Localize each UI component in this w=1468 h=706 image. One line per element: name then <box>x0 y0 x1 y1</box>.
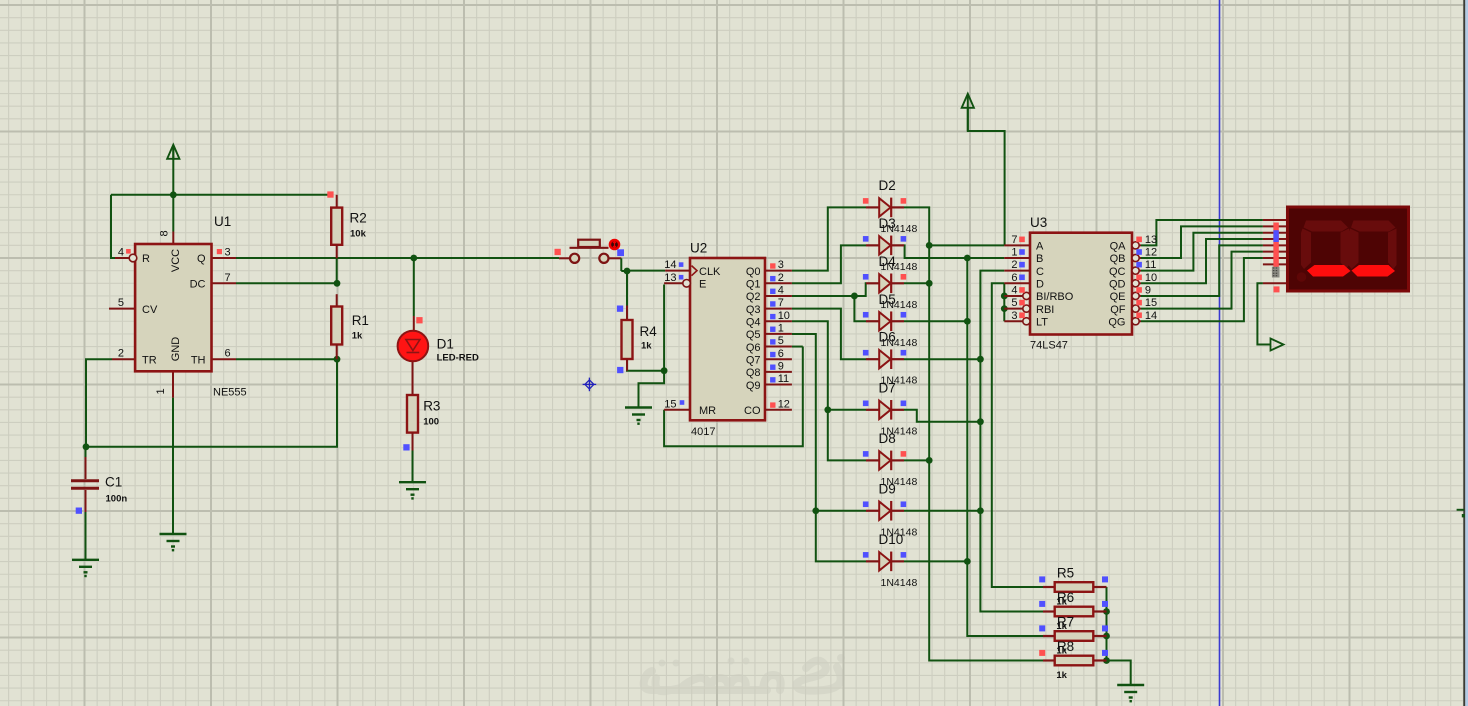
resistor R7 <box>1043 635 1055 637</box>
node TR-C1 junction <box>83 443 90 450</box>
wire pin8 drop <box>172 195 174 232</box>
svg-text:Q2: Q2 <box>746 291 761 303</box>
svg-text:14: 14 <box>664 259 676 271</box>
svg-text:12: 12 <box>778 398 790 410</box>
ground R3 <box>399 482 426 495</box>
svg-text:13: 13 <box>1145 234 1157 246</box>
diode D7 1N4148 <box>866 400 904 420</box>
svg-text:4: 4 <box>778 285 784 297</box>
node DC-R1R2 junction <box>334 280 341 287</box>
node Q4-D7 junction <box>824 406 831 413</box>
wire fragment right edge <box>1457 509 1465 511</box>
wire Q4 to D7 D8 bus <box>792 321 866 460</box>
node BI RBI taps <box>1001 293 1008 300</box>
svg-text:NE555: NE555 <box>213 387 247 399</box>
wire U3 QG to display <box>1141 258 1263 321</box>
node TH-R1 junction <box>334 356 341 363</box>
svg-text:QE: QE <box>1110 291 1126 303</box>
svg-text:R4: R4 <box>640 324 658 339</box>
diode D3 1N4148 <box>866 236 904 256</box>
svg-text:2: 2 <box>778 272 784 284</box>
pin stub U1 pin3 Q <box>212 257 237 259</box>
svg-text:Q7: Q7 <box>746 354 761 366</box>
svg-text:U3: U3 <box>1030 215 1047 230</box>
svg-text:10k: 10k <box>350 229 367 240</box>
diode D2 1N4148 <box>866 198 904 218</box>
svg-text:4: 4 <box>118 247 124 259</box>
svg-text:6: 6 <box>778 348 784 360</box>
svg-text:C1: C1 <box>105 475 122 490</box>
svg-text:R: R <box>142 253 150 265</box>
ground R8 <box>1117 685 1144 698</box>
svg-text:13: 13 <box>664 272 676 284</box>
wire E pin drop <box>663 285 665 371</box>
svg-text:QB: QB <box>1110 253 1126 265</box>
display common pin stub <box>1263 282 1289 284</box>
svg-text:QA: QA <box>1110 241 1127 253</box>
wire Q2 to D4 <box>792 283 866 296</box>
svg-text:CO: CO <box>744 405 761 417</box>
svg-text:DC: DC <box>190 279 206 291</box>
svg-text:C: C <box>1036 266 1044 278</box>
wire D8 cathode link <box>904 459 929 461</box>
svg-text:R5: R5 <box>1057 566 1074 581</box>
node R4-E junction <box>661 367 668 374</box>
diode D4 1N4148 <box>866 274 904 294</box>
wire D10 cathode link <box>904 560 967 562</box>
wire U3 QA to display <box>1141 220 1263 245</box>
svg-text:Q0: Q0 <box>746 266 761 278</box>
svg-text:1k: 1k <box>1056 670 1067 681</box>
U1 pin4 bubble <box>129 254 137 262</box>
svg-text:D3: D3 <box>879 216 896 231</box>
ic U2 4017 body <box>690 258 765 420</box>
svg-text:D8: D8 <box>879 431 896 446</box>
svg-text:U1: U1 <box>214 214 231 229</box>
svg-text:1k: 1k <box>641 341 652 352</box>
wire R5-R8 common vertical <box>1107 587 1131 685</box>
svg-text:3: 3 <box>778 259 784 271</box>
svg-text:Q9: Q9 <box>746 380 761 392</box>
watermark <box>644 661 841 692</box>
diode D6 1N4148 <box>866 349 904 369</box>
svg-text:7: 7 <box>778 297 784 309</box>
node R6 R7 R8 taps <box>1103 608 1110 615</box>
svg-text:D4: D4 <box>879 254 897 269</box>
resistor R1 <box>336 294 338 306</box>
diode D10 1N4148 <box>866 552 904 572</box>
svg-text:6: 6 <box>225 348 231 360</box>
wire VCC2 to U3 A <box>968 108 1005 245</box>
svg-text:Q4: Q4 <box>746 317 761 329</box>
svg-text:D6: D6 <box>879 330 896 345</box>
svg-text:Q3: Q3 <box>746 304 761 316</box>
wire reset drop to pin4 <box>111 195 116 258</box>
svg-text:1N4148: 1N4148 <box>881 577 918 589</box>
wire U1 pin1 to ground <box>172 371 174 398</box>
svg-text:R7: R7 <box>1057 615 1074 630</box>
svg-text:B: B <box>1036 253 1043 265</box>
U2 Q output stubs <box>765 270 792 272</box>
wire VCC rail U1 top <box>111 194 332 196</box>
pin stub U1 pin2 TR <box>112 358 135 360</box>
svg-text:3: 3 <box>225 247 231 259</box>
svg-text:GND: GND <box>170 337 182 362</box>
wire Q6 stub link <box>792 346 803 348</box>
pin stub U1 pin4 <box>115 257 129 259</box>
resistor R5 <box>1043 586 1055 588</box>
svg-text:7: 7 <box>1011 234 1017 246</box>
wire R3 to ground <box>412 451 414 483</box>
svg-text:D1: D1 <box>437 337 454 352</box>
node Q-D1 junction <box>410 255 417 262</box>
wire junction to ground jog <box>639 371 665 407</box>
wire TH to R1 bottom <box>236 358 337 360</box>
svg-text:MR: MR <box>699 405 716 417</box>
svg-text:E: E <box>699 279 706 291</box>
ground R4 <box>625 408 652 421</box>
svg-text:D5: D5 <box>879 292 896 307</box>
svg-text:8: 8 <box>159 230 171 236</box>
svg-text:TR: TR <box>142 354 157 366</box>
wire Q1 to D3 <box>792 245 866 283</box>
display digit 1 segments <box>1304 221 1349 232</box>
svg-text:14: 14 <box>1145 310 1157 322</box>
svg-text:100n: 100n <box>106 494 128 505</box>
svg-text:1: 1 <box>778 322 784 334</box>
svg-text:9: 9 <box>1145 284 1151 296</box>
svg-text:1: 1 <box>1011 247 1017 259</box>
node bus C taps <box>977 356 984 363</box>
diode D9 1N4148 <box>866 501 904 521</box>
ground C1 <box>72 560 99 573</box>
svg-text:Q1: Q1 <box>746 279 761 291</box>
pin stub U1 pin5 CV <box>109 308 135 310</box>
wire C1 bottom to ground <box>85 512 87 560</box>
svg-text:RBI: RBI <box>1036 304 1054 316</box>
wire D5 cathode link <box>904 320 967 322</box>
pin stub U1 pin7 DC <box>212 282 237 284</box>
svg-text:11: 11 <box>778 373 789 385</box>
resistor R2 <box>336 195 338 208</box>
svg-text:15: 15 <box>1145 297 1157 309</box>
svg-text:9: 9 <box>778 360 784 372</box>
svg-text:D9: D9 <box>879 481 896 496</box>
svg-text:R8: R8 <box>1057 639 1074 654</box>
wire U3 QE to display <box>1141 245 1263 296</box>
origin crosshair marker <box>583 378 597 392</box>
7-segment display <box>1288 207 1409 291</box>
wire D9 cathode link <box>904 510 980 512</box>
wire U3 QD to display <box>1141 239 1263 283</box>
svg-text:R6: R6 <box>1057 590 1074 605</box>
wire D3 cathode jog to bus B <box>904 245 1004 258</box>
svg-text:QG: QG <box>1108 316 1125 328</box>
resistor R4 <box>626 306 628 321</box>
U2 E pin stub and bubble <box>664 282 683 284</box>
svg-text:LED-RED: LED-RED <box>437 353 479 364</box>
wire D9 anode link <box>816 510 866 512</box>
wire Q output net <box>236 257 559 259</box>
wire D4 cathode link <box>904 282 929 284</box>
svg-text:LT: LT <box>1036 316 1048 328</box>
svg-text:D10: D10 <box>879 532 904 547</box>
wire bus B vertical <box>967 258 1043 636</box>
resistor R6 <box>1043 610 1055 612</box>
wire D7 anode link <box>828 409 866 411</box>
U2 CO stub <box>765 409 792 411</box>
node button-R4-CLK junction <box>624 268 631 275</box>
display selection markers <box>1273 223 1278 268</box>
power symbol VCC2 <box>967 95 969 131</box>
wire bus D vertical <box>992 283 1043 587</box>
svg-text:5: 5 <box>778 335 784 347</box>
wire D7 cathode jog <box>904 410 980 422</box>
wire bus C vertical <box>980 271 1043 612</box>
svg-text:2: 2 <box>118 348 124 360</box>
edit-window boundary line <box>1219 0 1221 706</box>
node bus A taps <box>926 242 933 249</box>
svg-text:QF: QF <box>1110 304 1126 316</box>
svg-text:3: 3 <box>1011 310 1017 322</box>
wire power arrow 1 stem <box>172 147 174 195</box>
ic U3 74LS47 body <box>1030 233 1132 335</box>
wire bus A vertical <box>904 207 1043 660</box>
svg-text:R3: R3 <box>423 399 440 414</box>
wire R2 bottom link <box>336 258 338 283</box>
wire U3 QB to display <box>1141 226 1263 258</box>
node bus B top <box>964 255 971 262</box>
svg-text:A: A <box>1036 241 1044 253</box>
display pin stubs <box>1263 219 1289 221</box>
svg-text:5: 5 <box>1011 297 1017 309</box>
U3 left pin stubs <box>1004 244 1030 246</box>
wire Q5 to D9 D10 bus <box>792 334 866 561</box>
node Q5-D9 junction <box>812 507 819 514</box>
wire U3 QC to display <box>1141 233 1263 271</box>
svg-text:CV: CV <box>142 304 158 316</box>
svg-text:11: 11 <box>1145 259 1156 271</box>
svg-text:12: 12 <box>1145 247 1157 259</box>
svg-text:Q6: Q6 <box>746 342 761 354</box>
wire junction to U2 CLK <box>627 270 665 272</box>
node Q2 junction <box>851 293 858 300</box>
wire Q3 to D6 <box>792 309 866 360</box>
resistor R3 <box>412 362 414 395</box>
button state indicator <box>610 240 619 249</box>
wire Q0 to D2 <box>792 207 866 270</box>
power symbol VCC1 <box>172 146 174 161</box>
svg-text:Q8: Q8 <box>746 367 761 379</box>
svg-text:1k: 1k <box>352 331 363 342</box>
svg-text:TH: TH <box>191 354 206 366</box>
U3 right pin stubs <box>1132 242 1139 249</box>
svg-text:Q: Q <box>197 253 206 265</box>
display decimal point <box>1297 272 1307 282</box>
svg-text:2: 2 <box>1011 259 1017 271</box>
svg-text:VCC: VCC <box>170 249 182 272</box>
svg-text:D: D <box>1036 279 1044 291</box>
svg-text:4017: 4017 <box>691 426 715 438</box>
svg-text:U2: U2 <box>690 241 707 256</box>
svg-text:4: 4 <box>1011 284 1017 296</box>
svg-text:QC: QC <box>1109 266 1126 278</box>
svg-text:5: 5 <box>118 297 124 309</box>
diode D8 1N4148 <box>866 451 904 471</box>
ic U1 NE555 body <box>135 244 211 371</box>
wire U3 D-BI-RBI-LT tie <box>1003 283 1005 321</box>
node VCC1 junction <box>170 191 177 198</box>
svg-text:74LS47: 74LS47 <box>1030 340 1068 352</box>
U2 MR pin stub <box>664 409 690 411</box>
svg-text:15: 15 <box>664 398 676 410</box>
capacitor C1 <box>85 447 87 458</box>
svg-text:R2: R2 <box>350 211 367 226</box>
svg-text:D2: D2 <box>879 178 896 193</box>
pin stub U1 pin6 TH <box>212 358 237 360</box>
push button <box>559 257 570 259</box>
svg-text:100: 100 <box>423 417 439 428</box>
wire button right to CLK junction <box>609 257 622 259</box>
wire MR net to Q6 <box>664 347 803 447</box>
svg-text:R1: R1 <box>352 313 369 328</box>
wire Q2 to D5 <box>854 296 866 321</box>
wire display common to terminal <box>1257 283 1270 344</box>
svg-text:6: 6 <box>1011 272 1017 284</box>
resistor R8 <box>1043 659 1055 661</box>
wire C1 top to R1 bottom <box>86 359 337 447</box>
wire U3 QF to display <box>1141 252 1263 309</box>
wire D6 cathode link <box>904 358 980 360</box>
display digit 2 segments <box>1351 221 1396 232</box>
ground U1 pin1 <box>160 534 187 547</box>
svg-text:D7: D7 <box>879 380 896 395</box>
output terminal arrow <box>1271 339 1284 351</box>
svg-text:CLK: CLK <box>699 266 721 278</box>
selection markers misc <box>327 191 333 197</box>
wire A input to U3 <box>929 244 1004 246</box>
svg-text:Q5: Q5 <box>746 329 761 341</box>
node bus B taps <box>964 318 971 325</box>
wire R4 bottom to E junction <box>627 370 664 372</box>
led D1 LED-RED <box>398 331 429 362</box>
canvas right border <box>1463 0 1465 706</box>
svg-text:10: 10 <box>1145 272 1157 284</box>
U2 CLK pin stub <box>665 270 690 272</box>
svg-text:7: 7 <box>225 272 231 284</box>
svg-text:10: 10 <box>778 310 790 322</box>
svg-text:1: 1 <box>155 388 167 394</box>
diode D5 1N4148 <box>866 311 904 331</box>
svg-text:BI/RBO: BI/RBO <box>1036 291 1074 303</box>
svg-text:QD: QD <box>1109 279 1126 291</box>
wire TR net <box>86 359 112 447</box>
wire D1 anode drop <box>413 258 415 316</box>
wire junction down to R4 <box>626 271 628 306</box>
wire DC to R1 top <box>236 282 337 284</box>
